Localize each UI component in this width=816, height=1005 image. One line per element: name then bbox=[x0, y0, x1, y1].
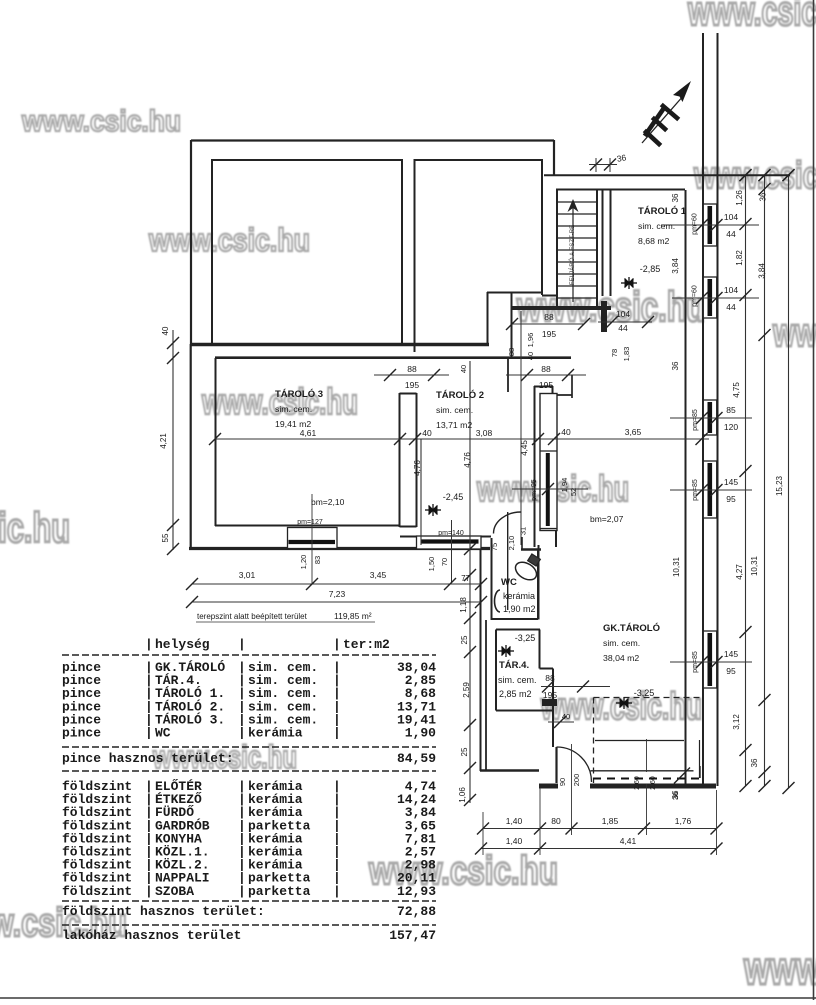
svg-text:36: 36 bbox=[671, 193, 680, 202]
svg-text:pm=95: pm=95 bbox=[531, 479, 538, 501]
svg-text:4,45: 4,45 bbox=[520, 440, 529, 456]
svg-text:1,50: 1,50 bbox=[427, 557, 436, 572]
svg-text:|: | bbox=[333, 637, 341, 652]
svg-text:1,40: 1,40 bbox=[506, 836, 523, 846]
svg-text:44: 44 bbox=[726, 302, 736, 312]
svg-text:72,88: 72,88 bbox=[397, 904, 436, 919]
svg-text:3,84: 3,84 bbox=[671, 258, 680, 274]
svg-text:88: 88 bbox=[541, 364, 551, 374]
svg-text:3,12: 3,12 bbox=[732, 714, 741, 730]
svg-text:sim. cem.: sim. cem. bbox=[436, 405, 473, 415]
svg-text:10,31: 10,31 bbox=[750, 555, 759, 576]
svg-text:4,61: 4,61 bbox=[300, 428, 317, 438]
svg-text:15,23: 15,23 bbox=[775, 475, 784, 496]
svg-text:|: | bbox=[238, 637, 246, 652]
svg-text:|: | bbox=[238, 884, 246, 899]
svg-text:helység: helység bbox=[155, 637, 210, 652]
svg-text:4,21: 4,21 bbox=[159, 433, 168, 449]
svg-text:104: 104 bbox=[724, 285, 738, 295]
svg-text:|: | bbox=[333, 884, 341, 899]
svg-text:104: 104 bbox=[724, 212, 738, 222]
svg-text:36: 36 bbox=[671, 792, 680, 800]
svg-text:85: 85 bbox=[726, 405, 736, 415]
svg-text:12,93: 12,93 bbox=[397, 884, 436, 899]
svg-text:pince: pince bbox=[62, 726, 101, 741]
svg-text:4,76: 4,76 bbox=[413, 460, 422, 476]
svg-text:|: | bbox=[238, 726, 246, 741]
svg-text:ter:m2: ter:m2 bbox=[343, 637, 390, 652]
svg-text:40: 40 bbox=[561, 427, 571, 437]
svg-text:pm=60: pm=60 bbox=[692, 285, 699, 307]
svg-text:www.csic.hu: www.csic.hu bbox=[0, 504, 70, 551]
svg-text:195: 195 bbox=[405, 380, 419, 390]
svg-text:SZOBA: SZOBA bbox=[155, 884, 194, 899]
svg-text:13,71 m2: 13,71 m2 bbox=[436, 420, 472, 430]
svg-text:pince hasznos terület:: pince hasznos terület: bbox=[62, 751, 234, 766]
svg-text:1,90 m2: 1,90 m2 bbox=[503, 604, 536, 614]
svg-text:4,76: 4,76 bbox=[463, 452, 472, 468]
svg-text:25: 25 bbox=[460, 635, 469, 644]
svg-text:90: 90 bbox=[558, 778, 567, 786]
svg-text:10,31: 10,31 bbox=[672, 556, 681, 577]
svg-text:3,65: 3,65 bbox=[625, 427, 642, 437]
svg-text:44: 44 bbox=[726, 229, 736, 239]
svg-text:25: 25 bbox=[460, 747, 469, 756]
svg-text:83: 83 bbox=[313, 556, 322, 564]
svg-text:lakóház hasznos terület: lakóház hasznos terület bbox=[62, 928, 241, 943]
svg-text:parketta: parketta bbox=[248, 884, 311, 899]
svg-text:2,60: 2,60 bbox=[634, 776, 641, 790]
svg-text:1,76: 1,76 bbox=[675, 816, 692, 826]
svg-text:TÁROLÓ 1: TÁROLÓ 1 bbox=[638, 205, 687, 217]
svg-text:195: 195 bbox=[542, 329, 556, 339]
svg-text:3,01: 3,01 bbox=[239, 570, 256, 580]
svg-text:95: 95 bbox=[726, 666, 736, 676]
svg-text:földszint: földszint bbox=[62, 884, 132, 899]
svg-text:40: 40 bbox=[562, 712, 570, 721]
svg-text:1,85: 1,85 bbox=[602, 816, 619, 826]
svg-text:1,40: 1,40 bbox=[506, 816, 523, 826]
svg-text:36: 36 bbox=[759, 192, 768, 201]
svg-text:195: 195 bbox=[539, 380, 553, 390]
svg-text:www.csic.hu: www.csic.hu bbox=[148, 222, 310, 258]
svg-text:195: 195 bbox=[543, 690, 557, 700]
svg-text:sim. cem.: sim. cem. bbox=[498, 675, 537, 685]
svg-text:104: 104 bbox=[616, 309, 630, 319]
svg-text:-3,25: -3,25 bbox=[515, 633, 536, 643]
svg-text:|: | bbox=[145, 637, 153, 652]
svg-text:7,23: 7,23 bbox=[329, 589, 346, 599]
svg-text:|: | bbox=[145, 884, 153, 899]
svg-text:bm=2,07: bm=2,07 bbox=[590, 514, 624, 524]
svg-text:157,47: 157,47 bbox=[389, 928, 436, 943]
svg-text:3,08: 3,08 bbox=[476, 428, 493, 438]
svg-text:1,06: 1,06 bbox=[458, 787, 467, 803]
svg-text:WC: WC bbox=[501, 577, 517, 588]
svg-text:80: 80 bbox=[551, 816, 561, 826]
svg-text:1,94: 1,94 bbox=[560, 478, 569, 493]
svg-text:-3,25: -3,25 bbox=[634, 688, 655, 698]
svg-text:kerámia: kerámia bbox=[248, 726, 303, 741]
svg-text:TÁROLÓ 2: TÁROLÓ 2 bbox=[436, 389, 484, 401]
svg-text:földszint hasznos terület:: földszint hasznos terület: bbox=[62, 904, 265, 919]
svg-text:FELJÁRÓ A FSZT-RE: FELJÁRÓ A FSZT-RE bbox=[569, 225, 576, 286]
svg-text:84,59: 84,59 bbox=[397, 751, 436, 766]
svg-text:36: 36 bbox=[750, 758, 759, 767]
svg-text:4,75: 4,75 bbox=[732, 382, 741, 398]
svg-text:200: 200 bbox=[572, 774, 581, 787]
svg-text:WC: WC bbox=[155, 726, 171, 741]
svg-text:31: 31 bbox=[519, 527, 528, 535]
svg-text:3,84: 3,84 bbox=[758, 263, 767, 279]
svg-text:1,90: 1,90 bbox=[405, 726, 436, 741]
svg-text:TÁR.4.: TÁR.4. bbox=[499, 660, 529, 671]
svg-text:2,60: 2,60 bbox=[650, 776, 657, 790]
svg-text:1,82: 1,82 bbox=[735, 250, 744, 266]
svg-text:145: 145 bbox=[724, 477, 738, 487]
svg-text:4,41: 4,41 bbox=[620, 836, 637, 846]
svg-text:kerámia: kerámia bbox=[503, 591, 535, 601]
svg-text:sim. cem.: sim. cem. bbox=[275, 404, 312, 414]
svg-text:8,68 m2: 8,68 m2 bbox=[638, 236, 670, 246]
svg-text:40: 40 bbox=[459, 365, 468, 373]
svg-text:75: 75 bbox=[490, 543, 499, 551]
svg-text:bm=2,10: bm=2,10 bbox=[311, 497, 345, 507]
svg-text:-2,85: -2,85 bbox=[640, 264, 661, 274]
svg-text:pm=60: pm=60 bbox=[692, 213, 699, 235]
svg-text:pm=85: pm=85 bbox=[692, 409, 699, 431]
svg-text:88: 88 bbox=[407, 364, 417, 374]
svg-text:1,83: 1,83 bbox=[622, 347, 631, 362]
svg-text:2,85 m2: 2,85 m2 bbox=[499, 689, 532, 699]
svg-text:44: 44 bbox=[618, 323, 628, 333]
svg-text:77: 77 bbox=[461, 574, 470, 583]
svg-text:pm=85: pm=85 bbox=[692, 651, 699, 673]
svg-text:1,18: 1,18 bbox=[459, 597, 468, 613]
svg-text:19,41 m2: 19,41 m2 bbox=[275, 419, 311, 429]
svg-text:terepszint alatt beépített ter: terepszint alatt beépített terület bbox=[197, 612, 308, 621]
svg-text:www.csic.hu: www.csic.hu bbox=[772, 311, 816, 355]
svg-text:95: 95 bbox=[726, 494, 736, 504]
svg-text:www.csic.hu: www.csic.hu bbox=[687, 0, 816, 34]
svg-text:pm=127: pm=127 bbox=[297, 519, 323, 526]
svg-text:1,26: 1,26 bbox=[735, 190, 744, 206]
svg-text:2,10: 2,10 bbox=[507, 536, 516, 551]
svg-text:1,96: 1,96 bbox=[526, 333, 535, 348]
svg-text:4,27: 4,27 bbox=[735, 564, 744, 580]
svg-text:36: 36 bbox=[616, 152, 627, 164]
svg-text:145: 145 bbox=[724, 649, 738, 659]
svg-text:55: 55 bbox=[161, 533, 170, 542]
svg-text:3,45: 3,45 bbox=[370, 570, 387, 580]
svg-text:-2,45: -2,45 bbox=[443, 492, 464, 502]
svg-text:2,59: 2,59 bbox=[462, 682, 471, 698]
svg-text:sim. cem.: sim. cem. bbox=[638, 221, 675, 231]
svg-text:www.csic.hu: www.csic.hu bbox=[201, 381, 358, 422]
svg-text:TÁROLÓ 3: TÁROLÓ 3 bbox=[275, 388, 323, 400]
svg-text:70: 70 bbox=[440, 558, 449, 566]
svg-text:sim. cem.: sim. cem. bbox=[603, 638, 640, 648]
svg-text:40: 40 bbox=[422, 428, 432, 438]
svg-text:78: 78 bbox=[610, 349, 619, 357]
svg-text:pm=85: pm=85 bbox=[692, 479, 699, 501]
svg-text:40: 40 bbox=[161, 326, 170, 335]
svg-text:38,04 m2: 38,04 m2 bbox=[603, 653, 639, 663]
svg-text:119,85 m²: 119,85 m² bbox=[334, 611, 372, 621]
svg-text:1,20: 1,20 bbox=[299, 555, 308, 570]
svg-text:pm=140: pm=140 bbox=[438, 530, 464, 537]
svg-text:40: 40 bbox=[526, 352, 535, 360]
svg-text:|: | bbox=[333, 726, 341, 741]
svg-text:120: 120 bbox=[724, 422, 738, 432]
svg-text:88: 88 bbox=[507, 348, 516, 356]
svg-text:www.csic.hu: www.csic.hu bbox=[743, 942, 816, 994]
svg-text:52: 52 bbox=[569, 488, 578, 496]
svg-text:88: 88 bbox=[544, 312, 554, 322]
svg-text:GK.TÁROLÓ: GK.TÁROLÓ bbox=[603, 622, 660, 634]
svg-text:www.csic.hu: www.csic.hu bbox=[21, 105, 181, 138]
svg-text:36: 36 bbox=[671, 361, 680, 370]
svg-text:|: | bbox=[145, 726, 153, 741]
